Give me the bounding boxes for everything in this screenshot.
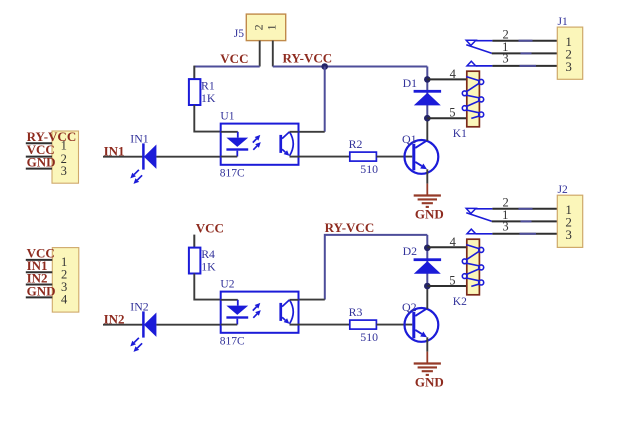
svg-text:4: 4: [450, 235, 457, 249]
optocoupler U1 internal LED: [226, 138, 248, 157]
resistor R3: [350, 320, 377, 329]
svg-text:D2: D2: [403, 244, 418, 258]
wire pin 2 stub: [26, 271, 53, 273]
wire input IN2 to LED: [103, 324, 143, 326]
LED IN1: [130, 143, 156, 184]
resistor R1: [189, 79, 201, 105]
svg-text:U2: U2: [220, 279, 234, 291]
junction node at D2 cathode: [424, 245, 431, 252]
optocoupler U2 cathode pin wire: [221, 324, 238, 326]
junction node at D1 anode: [424, 115, 431, 122]
junction node RY-VCC: [321, 63, 328, 70]
resistor R4: [189, 248, 201, 274]
LED IN2: [130, 311, 156, 352]
svg-text:D1: D1: [403, 76, 418, 90]
optocoupler U2 anode pin wire: [221, 299, 238, 301]
relay contact mark (pin 3): [467, 229, 476, 234]
wire U1 collector link: [299, 131, 325, 133]
wire pin 2 to connector: [492, 208, 557, 210]
svg-text:U1: U1: [220, 111, 234, 123]
relay contact arm: [466, 45, 491, 54]
svg-text:VCC: VCC: [196, 221, 224, 236]
connector header (input): [52, 131, 79, 183]
optocoupler U2 emitter pin wire: [290, 324, 299, 326]
wire relay pin 4 (K2): [427, 246, 467, 248]
optocoupler U1 emitter pin wire: [290, 156, 299, 158]
svg-text:IN2: IN2: [130, 299, 148, 313]
svg-text:5: 5: [449, 273, 455, 287]
wire input IN1 to LED: [103, 156, 143, 158]
svg-text:IN2: IN2: [104, 311, 125, 326]
svg-text:510: 510: [360, 162, 378, 176]
wire contact pin 3 lead: [476, 65, 493, 67]
svg-text:R3: R3: [349, 305, 363, 319]
wire pin 3 to connector: [492, 233, 557, 235]
svg-text:2: 2: [251, 24, 265, 30]
svg-text:510: 510: [360, 330, 378, 344]
wire U2 collector link: [299, 299, 325, 301]
svg-text:1K: 1K: [201, 260, 216, 274]
wire LED to optocoupler: [156, 324, 220, 326]
wire R4 to U2 anode: [194, 274, 220, 300]
wire VCC to R1: [193, 66, 195, 80]
wire contact pin 2 lead: [476, 208, 493, 210]
wire pin 3 violet segment: [520, 233, 537, 235]
wire U2 emitter to R3: [299, 324, 350, 326]
wire pin 2 to connector: [492, 40, 557, 42]
svg-text:4: 4: [61, 293, 68, 307]
wire RY-VCC net: [273, 66, 428, 68]
wire RY-VCC channel 2: [325, 235, 428, 300]
svg-text:3: 3: [502, 52, 508, 66]
svg-text:J5: J5: [234, 28, 244, 40]
wire pin 2 stub: [26, 156, 52, 158]
svg-text:RY-VCC: RY-VCC: [325, 220, 375, 235]
wire D1 anode to Q1 collector: [426, 118, 428, 141]
wire VCC to R4: [193, 235, 195, 248]
svg-text:GND: GND: [415, 375, 444, 390]
wire pin 3 stub: [26, 284, 53, 286]
wire D2 anode to Q2 collector: [426, 286, 428, 309]
relay coil K2: [462, 239, 483, 295]
optocoupler U1 anode pin wire: [221, 131, 238, 133]
connector J1: [557, 27, 582, 79]
wire Q1 emitter-to-ground stem: [426, 169, 428, 183]
wire Q2 emitter-to-ground stem: [426, 337, 428, 351]
wire pin 2 violet segment: [519, 40, 533, 42]
svg-text:R2: R2: [349, 137, 363, 151]
svg-text:1: 1: [265, 24, 279, 30]
svg-text:K2: K2: [453, 296, 467, 308]
relay contact common mark (pin 2): [466, 40, 476, 45]
wire pin 1 violet segment: [521, 220, 532, 222]
wire pin 3 violet segment: [520, 65, 537, 67]
ground Q1: [414, 184, 441, 207]
wire J5 pin2 stub: [259, 41, 261, 67]
optocoupler U2 light arrows: [253, 303, 261, 318]
wire pin 1 to connector: [492, 220, 558, 222]
svg-text:K1: K1: [453, 128, 467, 140]
svg-text:GND: GND: [27, 284, 56, 299]
svg-text:3: 3: [61, 280, 67, 294]
wire pin 1 stub: [26, 259, 53, 261]
wire pin 1 violet segment: [521, 52, 532, 54]
diode D2: [414, 258, 442, 274]
connector J5: [246, 14, 285, 40]
wire pin 3 stub: [26, 168, 52, 170]
transistor Q1: [405, 140, 439, 174]
relay contact arm: [466, 213, 491, 222]
optocoupler U1 collector pin wire: [290, 131, 299, 133]
wire relay pin 5: [427, 117, 467, 119]
wire J5 pin1 stub: [272, 41, 274, 67]
wire LED to optocoupler: [156, 156, 220, 158]
wire pin 3 to connector: [492, 65, 557, 67]
wire RY-VCC vertical through diode D2: [426, 235, 428, 286]
op-amp... optocoupler U1 box: [221, 124, 299, 165]
wire U1 emitter to R2: [299, 156, 350, 158]
wire pin 2 violet segment: [519, 208, 533, 210]
relay contact mark (pin 3): [467, 61, 476, 66]
wire contact pin 3 lead: [476, 233, 493, 235]
svg-text:817C: 817C: [220, 336, 245, 348]
svg-text:IN1: IN1: [130, 131, 148, 145]
wire VCC net: [194, 66, 259, 68]
svg-text:4: 4: [450, 67, 457, 81]
svg-text:VCC: VCC: [220, 51, 248, 66]
relay contact common mark (pin 2): [466, 208, 476, 213]
svg-text:1K: 1K: [201, 91, 216, 105]
wire relay pin 5 (K2): [427, 285, 467, 287]
svg-text:IN1: IN1: [104, 143, 125, 158]
junction node at D1 cathode: [424, 76, 431, 83]
svg-text:3: 3: [61, 164, 67, 178]
svg-text:817C: 817C: [220, 168, 245, 180]
svg-text:J2: J2: [558, 184, 568, 196]
connector J2: [557, 195, 582, 247]
wire pin 1 to connector: [492, 52, 558, 54]
optocoupler U2 phototransistor: [279, 300, 293, 324]
wire relay pin 4: [427, 78, 467, 80]
transistor Q2: [405, 308, 439, 342]
optocoupler U1 phototransistor: [279, 132, 293, 156]
svg-text:Q1: Q1: [402, 132, 417, 146]
wire pin 1 stub: [26, 142, 52, 144]
junction node at D2 anode: [424, 283, 431, 290]
resistor R2: [350, 152, 377, 161]
wire R1 to U1 anode: [194, 105, 220, 132]
op-amp... optocoupler U2 box: [221, 292, 299, 333]
wire contact pin 2 lead: [476, 40, 493, 42]
svg-text:GND: GND: [27, 155, 56, 170]
optocoupler U1 cathode pin wire: [221, 156, 238, 158]
diode D1: [414, 90, 442, 106]
wire R3 to Q2 base: [376, 324, 412, 326]
wire pin 4 stub: [26, 296, 53, 298]
relay coil K1: [462, 71, 483, 127]
wire RY-VCC drop to U1 collector: [324, 67, 326, 132]
wire RY-VCC vertical through diode D1: [426, 67, 428, 119]
svg-text:3: 3: [502, 219, 508, 233]
svg-text:3: 3: [565, 227, 572, 242]
optocoupler U1 light arrows: [253, 135, 261, 150]
wire R2 to Q1 base: [376, 156, 412, 158]
svg-text:5: 5: [449, 106, 455, 120]
svg-text:Q2: Q2: [402, 300, 417, 314]
optocoupler U2 collector pin wire: [290, 299, 299, 301]
optocoupler U2 internal LED: [226, 306, 248, 325]
svg-text:3: 3: [565, 59, 572, 74]
connector header (input): [52, 248, 79, 313]
svg-text:GND: GND: [415, 207, 444, 222]
svg-text:J1: J1: [558, 16, 568, 28]
ground Q2: [414, 352, 441, 375]
